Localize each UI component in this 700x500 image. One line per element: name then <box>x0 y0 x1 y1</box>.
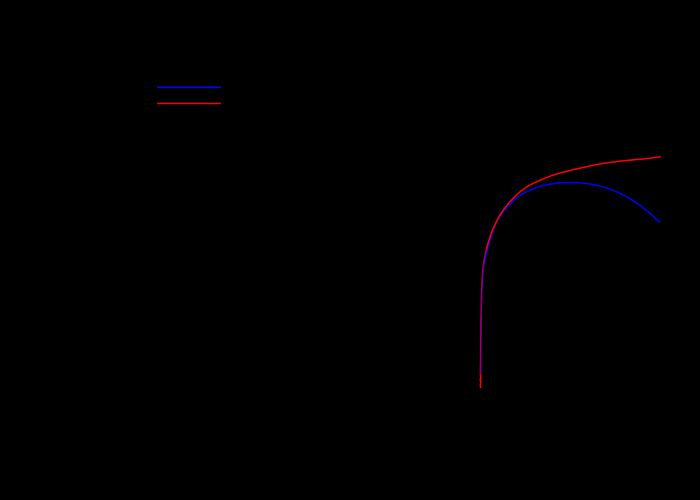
blue-red overlap on steep segment <box>481 250 487 373</box>
red curve <box>480 157 661 388</box>
blue curve <box>481 183 661 374</box>
legend blue line <box>157 86 221 88</box>
legend red line <box>157 103 221 105</box>
